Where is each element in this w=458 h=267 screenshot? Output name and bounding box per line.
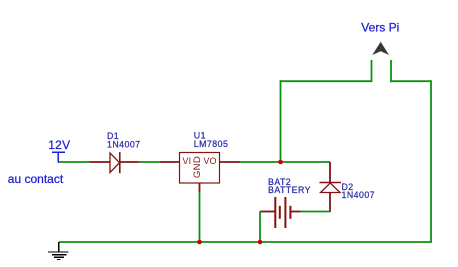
- wire: [390, 60, 392, 82]
- wire: [139, 161, 160, 163]
- junction node: [258, 240, 263, 245]
- svg-text:1N4007: 1N4007: [342, 190, 376, 200]
- wire: [280, 80, 372, 82]
- junction node: [278, 160, 283, 165]
- svg-text:1N4007: 1N4007: [107, 140, 141, 150]
- svg-text:VI: VI: [183, 156, 192, 166]
- svg-text:VO: VO: [204, 156, 217, 166]
- wire: [240, 161, 330, 163]
- wire: [301, 211, 331, 213]
- svg-text:12V: 12V: [48, 138, 70, 152]
- wire: [199, 192, 201, 242]
- wire: [259, 212, 261, 243]
- svg-text:BATTERY: BATTERY: [268, 185, 311, 195]
- wire: [59, 241, 432, 243]
- power terminal 12V: [52, 152, 65, 162]
- wire: [390, 80, 431, 82]
- wire: [371, 60, 373, 82]
- wire: [430, 80, 432, 242]
- battery BAT2: [260, 197, 301, 228]
- svg-text:Vers Pi: Vers Pi: [361, 21, 399, 35]
- off-page connector arrow Vers Pi: [372, 42, 389, 55]
- wire: [58, 161, 90, 163]
- diode D2: [320, 162, 342, 212]
- diode D1: [90, 152, 140, 173]
- regulator U1 LM7805: [160, 153, 240, 193]
- ground: [48, 242, 69, 260]
- wire: [280, 80, 282, 162]
- junction node: [197, 240, 202, 245]
- svg-text:LM7805: LM7805: [194, 139, 229, 149]
- svg-text:GND: GND: [192, 156, 203, 178]
- svg-text:au contact: au contact: [8, 172, 64, 186]
